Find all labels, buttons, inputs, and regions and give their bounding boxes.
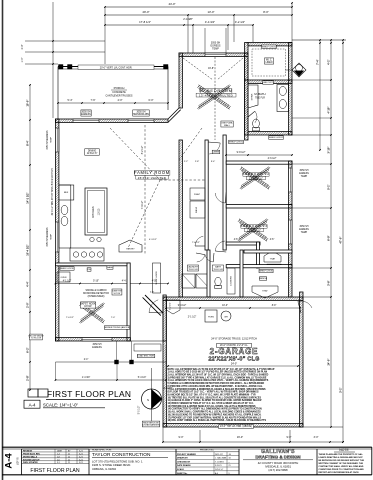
dinette bottom wall: [56, 338, 131, 341]
kitchen/dinette wall: [56, 263, 131, 266]
porch header label: [78, 65, 154, 69]
window: [82, 338, 112, 341]
porch posts: [59, 65, 64, 70]
bed3 closet wall: [226, 242, 260, 245]
kitchen sink: [61, 205, 68, 214]
oven: [57, 272, 70, 282]
right wall mud: [289, 265, 292, 297]
svg-text:34: 34: [229, 458, 231, 460]
svg-text:CHECKED BY: CHECKED BY: [177, 461, 191, 463]
attic access: [292, 63, 306, 77]
stoop: [130, 340, 163, 342]
window label: [81, 110, 91, 116]
right wall bed3: [289, 205, 292, 268]
base cab: [107, 266, 113, 269]
pantry pentagon: [119, 240, 142, 252]
dinette ceiling fan: [79, 303, 104, 324]
window: [56, 128, 59, 152]
svg-text:PROJECT No.: PROJECT No.: [200, 450, 215, 452]
right dim verticals: [319, 40, 321, 150]
laundry/bath wall: [207, 250, 210, 297]
svg-text:3-21: 3-21: [79, 456, 83, 458]
project table: [176, 451, 239, 453]
wic shelves: [252, 49, 286, 76]
svg-text:3-21: 3-21: [79, 459, 83, 461]
title block divider: [238, 449, 240, 475]
bath2 door: [212, 253, 215, 262]
svg-text:3-15-21: 3-15-21: [215, 465, 222, 467]
svg-text:THESE PLANS ARE THE PROPERTY O: THESE PLANS ARE THE PROPERTY OF GAL-: [319, 453, 364, 456]
svg-text:CONTRACTOR SHALL VERIFY ALL DI: CONTRACTOR SHALL VERIFY ALL DIMS AND: [319, 465, 364, 468]
svg-text:DATE: DATE: [57, 449, 63, 452]
svg-text:SCALE: SCALE: [177, 468, 184, 471]
bed3 bottom wall: [226, 265, 292, 268]
wic label: [265, 58, 274, 64]
hall linen closet: [212, 150, 220, 154]
mud top wall: [244, 250, 292, 253]
svg-text:2-6: 2-6: [57, 459, 60, 461]
right wall bed2: [289, 161, 292, 205]
svg-text:REPORT ANY DISCREPANCIES AT ON: REPORT ANY DISCREPANCIES AT ONCE.: [319, 471, 360, 474]
bed2 top wall: [226, 161, 292, 164]
toilet: [253, 119, 260, 128]
svg-text:9: 9: [229, 473, 230, 475]
mud lockers column: [227, 268, 235, 294]
mud shelf2: [259, 269, 273, 272]
svg-text:2-8: 2-8: [57, 456, 60, 458]
hall closet cabinets: [190, 188, 205, 200]
tray symbol: [264, 251, 281, 262]
dim line 44ft: [105, 6, 292, 8]
lav closet: [263, 81, 274, 84]
hall door: [208, 142, 220, 143]
svg-text:3-21: 3-21: [79, 453, 83, 455]
dim line 29/13/8: [105, 14, 292, 16]
vault dashed: [110, 128, 160, 180]
dim line below dinette: [56, 361, 167, 363]
window: [56, 222, 59, 252]
wall left of laundry: [179, 140, 182, 297]
entry wall: [163, 295, 166, 341]
m.bedroom left wall: [179, 53, 182, 108]
garage right wall: [300, 292, 303, 427]
bench: [259, 277, 266, 280]
kitchen counter: [59, 185, 71, 248]
revision table: [22, 448, 90, 450]
wic shelf label: [262, 45, 277, 49]
shower: [248, 85, 258, 108]
dishwasher: [87, 268, 91, 271]
svg-text:REVISION: REVISION: [23, 450, 33, 452]
porch sides: [57, 67, 59, 120]
garage left wall: [163, 297, 166, 427]
svg-text:NOTE: NOTE: [339, 448, 349, 452]
svg-text:BE REPRODUCED OR REUSED WITHOU: BE REPRODUCED OR REUSED WITHOUT THE: [319, 460, 365, 462]
bed2 ceiling fan: [240, 167, 270, 190]
svg-text:DRAFTING & DESIGN: DRAFTING & DESIGN: [255, 454, 300, 459]
bed2 dim line: [226, 154, 292, 156]
front exterior wall: [56, 119, 169, 122]
garage service door: [298, 301, 301, 313]
svg-text:21: 21: [68, 459, 70, 461]
dining label: [85, 149, 100, 155]
svg-text:1/4"=1'-0": 1/4"=1'-0": [215, 469, 223, 471]
svg-text:3-21: 3-21: [79, 450, 83, 452]
entry closet: [153, 263, 161, 293]
svg-text:CONDITIONS PRIOR TO CONSTRUCTI: CONDITIONS PRIOR TO CONSTRUCTION AND: [319, 468, 365, 471]
kitchen island: [85, 188, 107, 235]
porch header: [58, 66, 168, 68]
title block frame: [2, 446, 372, 448]
svg-text:DRAWN BY: DRAWN BY: [177, 457, 189, 460]
tray pentagon lower: [252, 286, 278, 298]
window label: [133, 110, 150, 116]
front door: [149, 312, 163, 315]
svg-text:J. GALLIVAN: J. GALLIVAN: [215, 457, 227, 460]
svg-text:A-4: A-4: [215, 472, 218, 475]
water heater: [221, 311, 231, 321]
svg-text:FIRST FLOOR PLAN: FIRST FLOOR PLAN: [30, 468, 79, 474]
bath bottom wall: [248, 132, 292, 135]
bedroom jog diagonal: [168, 108, 179, 119]
kitchen dim line: [56, 283, 169, 285]
mud shelf: [267, 264, 281, 267]
svg-text:KITCHEN LAYOUT: KITCHEN LAYOUT: [23, 458, 40, 461]
porch dim line: [58, 102, 168, 104]
wic left wall: [245, 43, 248, 81]
svg-text:DATE DRAWN: DATE DRAWN: [177, 464, 191, 467]
stoop step: [134, 344, 161, 351]
bath left wall: [245, 80, 248, 135]
bed3 label: [241, 225, 267, 229]
window: [73, 119, 99, 122]
window: [289, 220, 292, 244]
dim line segments: [105, 24, 253, 26]
dinette label 2: [112, 289, 122, 295]
m.bedroom right wall: [245, 53, 248, 140]
washer: [182, 274, 195, 288]
laundry door: [196, 253, 205, 255]
dinette label: [80, 302, 95, 308]
north arrow: [142, 389, 162, 409]
m.bath top wall: [248, 80, 292, 83]
left exterior wall: [56, 119, 59, 341]
svg-text:WRITTEN CONSENT OF THE DESIGNE: WRITTEN CONSENT OF THE DESIGNER. THE: [319, 463, 364, 465]
svg-text:3-1: 3-1: [57, 462, 60, 464]
bath door: [248, 111, 255, 117]
svg-text:(217) 202-5998: (217) 202-5998: [268, 468, 288, 472]
furnace: [205, 310, 217, 322]
svg-text:FRONT ELEV. REV.: FRONT ELEV. REV.: [23, 453, 41, 455]
wic top wall: [248, 43, 292, 46]
right connectors: [303, 426, 343, 428]
svg-text:T. CONST.: T. CONST.: [215, 461, 224, 463]
bed2/3 wall: [226, 205, 292, 208]
svg-text:PROJECT NUMBER: PROJECT NUMBER: [177, 454, 196, 456]
svg-text:21: 21: [229, 465, 231, 467]
window-to-floor note: [30, 334, 43, 340]
svg-text:3-21: 3-21: [79, 462, 83, 464]
family room label: [134, 171, 170, 176]
garage top dim: [166, 307, 300, 309]
pantry shelf: [60, 267, 74, 270]
bed2 label: [243, 173, 269, 177]
bed2 closet shelf: [269, 136, 284, 140]
bottom dim line: [163, 441, 343, 443]
extension lines: [104, 7, 106, 64]
svg-text:A-4: A-4: [4, 453, 15, 469]
svg-text:LIVAN'S DRAFTING & DESIGN AND: LIVAN'S DRAFTING & DESIGN AND MAY NOT: [319, 456, 364, 459]
right wall upper: [289, 43, 292, 81]
window: [205, 53, 226, 56]
svg-text:21: 21: [68, 453, 70, 455]
svg-text:2021-117: 2021-117: [215, 454, 223, 456]
bath2 right wall: [240, 250, 243, 297]
fridge: [59, 185, 74, 200]
bath2 label: [212, 265, 223, 271]
header box: [218, 425, 253, 429]
dryer: [196, 274, 209, 288]
dinette right wall: [127, 263, 130, 341]
sheet left border: [2, 0, 4, 480]
title block divider: [21, 449, 23, 475]
ovhd note: [216, 344, 251, 348]
garage top wall: [163, 297, 303, 300]
svg-text:SHEET No.: SHEET No.: [177, 473, 188, 475]
window: [289, 168, 292, 192]
garage bottom wall: [163, 424, 303, 427]
title block divider: [175, 449, 177, 475]
window: [128, 119, 154, 122]
m.bedroom top wall: [179, 53, 248, 56]
svg-text:TAYLOR CONSTRUCTION: TAYLOR CONSTRUCTION: [92, 452, 151, 458]
svg-text:DIMS. UPDATED: DIMS. UPDATED: [23, 461, 38, 464]
bed3 door: [215, 251, 226, 252]
bed3 ceiling fan: [238, 219, 268, 242]
drawing title: [28, 389, 38, 397]
right wall bath: [289, 80, 292, 135]
bed3 closet right: [257, 242, 260, 268]
svg-text:HOME SPEC. FOR:: HOME SPEC. FOR:: [92, 449, 112, 451]
bath2 toilet: [215, 277, 221, 286]
m.bedroom label: [200, 89, 232, 94]
svg-text:1-4: 1-4: [57, 453, 60, 455]
svg-text:22: 22: [68, 456, 70, 458]
bed2 door: [225, 192, 226, 203]
plumbing note: [221, 121, 233, 127]
family door: [195, 245, 205, 247]
brick note: [142, 421, 160, 427]
girder note: [104, 326, 129, 330]
closet shelf: [229, 140, 244, 144]
title block divider: [316, 449, 318, 475]
vault dashed: [183, 58, 213, 80]
left dim horizontals: [25, 40, 105, 42]
laundry label: [187, 265, 198, 271]
hall left wall: [205, 140, 208, 250]
svg-text:URBANA, IL 61802: URBANA, IL 61802: [92, 467, 116, 471]
svg-text:MOVED WALLS: MOVED WALLS: [23, 455, 38, 458]
right dim header: [292, 39, 346, 41]
range counter: [70, 248, 104, 261]
left dim verticals: [29, 85, 31, 390]
vanity: [277, 85, 289, 112]
svg-text:21: 21: [68, 462, 70, 464]
m.bedroom ceiling fan: [197, 85, 230, 110]
hall right wall: [223, 135, 226, 250]
header note: [137, 354, 155, 357]
title block divider: [88, 449, 90, 475]
entry angled wall: [145, 295, 163, 313]
garage entry landing: [167, 300, 181, 314]
svg-text:(OF 9): (OF 9): [17, 457, 20, 464]
